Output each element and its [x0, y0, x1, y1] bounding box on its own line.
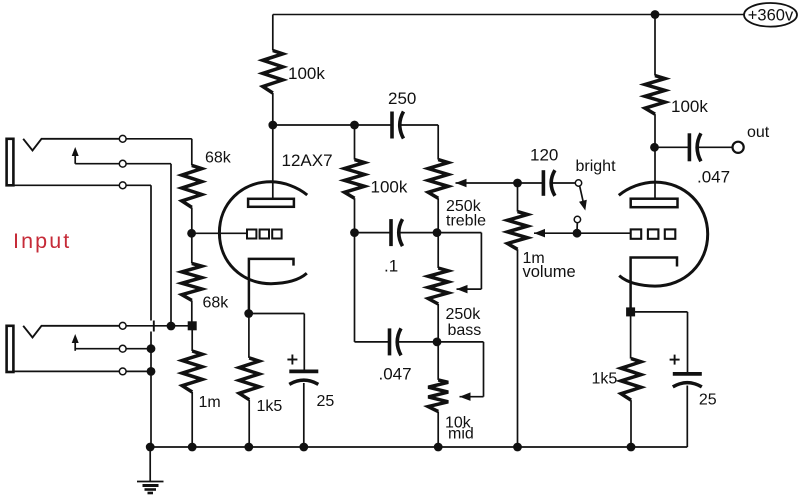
svg-text:1k5: 1k5 — [257, 398, 283, 415]
svg-text:100k: 100k — [288, 64, 325, 83]
svg-text:mid: mid — [448, 426, 474, 443]
svg-text:250: 250 — [388, 89, 416, 108]
svg-text:volume: volume — [523, 263, 576, 281]
svg-text:bright: bright — [576, 158, 617, 175]
svg-text:250k: 250k — [446, 306, 482, 323]
svg-text:out: out — [747, 124, 770, 141]
svg-text:120: 120 — [530, 146, 558, 165]
svg-text:.1: .1 — [384, 257, 398, 276]
svg-text:100k: 100k — [671, 97, 708, 116]
svg-text:Input: Input — [13, 229, 71, 253]
svg-text:25: 25 — [699, 392, 717, 409]
svg-text:1k5: 1k5 — [592, 371, 618, 388]
svg-text:1m: 1m — [199, 394, 221, 411]
svg-text:100k: 100k — [371, 178, 408, 197]
svg-text:treble: treble — [446, 213, 486, 230]
svg-text:+360v: +360v — [748, 7, 794, 25]
svg-text:68k: 68k — [203, 295, 230, 312]
svg-text:.047: .047 — [697, 168, 730, 187]
svg-text:bass: bass — [448, 322, 482, 339]
svg-text:12AX7: 12AX7 — [282, 151, 333, 170]
svg-text:25: 25 — [317, 393, 335, 410]
svg-text:68k: 68k — [205, 150, 232, 167]
svg-text:.047: .047 — [379, 365, 412, 384]
